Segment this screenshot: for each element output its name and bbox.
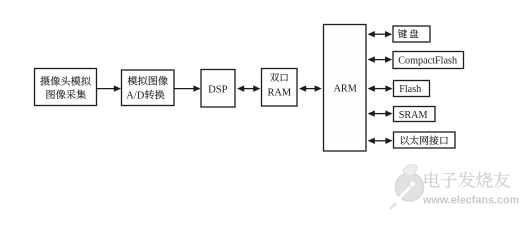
svg-text:SRAM: SRAM <box>399 110 428 121</box>
watermark: www.elecfans.com text <box>422 195 519 207</box>
block P2: CompactFlash <box>393 52 464 69</box>
svg-text:www.elecfans.com: www.elecfans.com <box>422 195 519 207</box>
svg-text:DSP: DSP <box>208 84 228 95</box>
block B1: camera analog image capture 摄像头模拟/图像采集 <box>35 69 97 106</box>
svg-text:Flash: Flash <box>399 84 421 95</box>
svg-text:ARM: ARM <box>334 84 357 95</box>
svg-text:A/D: A/D <box>126 90 145 101</box>
watermark: 电子发烧友 text <box>425 172 510 188</box>
wire W9: ARM <-> Ethernet interface double arrow <box>368 138 393 144</box>
wire W6: ARM <-> CompactFlash double arrow <box>368 56 393 62</box>
wire W1: capture -> A/D converter arrow <box>97 85 122 91</box>
block P4: SRAM <box>394 107 436 122</box>
svg-text:RAM: RAM <box>267 87 291 98</box>
block P3: Flash <box>394 81 430 97</box>
wire W4: RAM <-> ARM double arrow <box>299 85 322 91</box>
svg-text:CompactFlash: CompactFlash <box>398 56 457 67</box>
block P1: keyboard 键盘 <box>393 26 430 42</box>
wire W2: A/D converter -> DSP arrow <box>174 85 201 91</box>
wire W7: ARM <-> Flash double arrow <box>368 85 393 91</box>
block U1: DSP <box>201 70 235 108</box>
wire W8: ARM <-> SRAM double arrow <box>368 110 393 116</box>
block P5: Ethernet interface 以太网接口 <box>394 132 456 148</box>
wire W5: ARM <-> keyboard double arrow <box>368 31 393 37</box>
block B2: analog image A/D converter 模拟图像/AD转换 <box>122 70 175 106</box>
wire W3: DSP <-> dual-port RAM double arrow <box>237 85 260 91</box>
block U2: dual-port RAM 双口RAM <box>262 69 298 107</box>
watermark: elecfans logo <box>390 165 424 209</box>
block U3: ARM processor <box>324 25 367 152</box>
